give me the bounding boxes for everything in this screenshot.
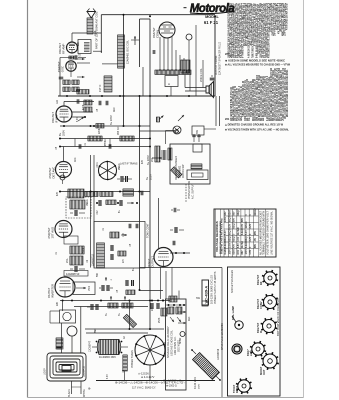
bottom bus xyxy=(96,380,215,382)
svg-text:22K: 22K xyxy=(78,41,80,46)
caps beside socket xyxy=(120,176,122,182)
wire xyxy=(140,18,151,20)
tube V3 6SA7GT CONV xyxy=(159,22,175,38)
V8 pin wires down xyxy=(160,267,162,299)
wire xyxy=(158,198,160,249)
svg-text:TERMINALS TO CHASSIS GROUND WI: TERMINALS TO CHASSIS GROUND WITH xyxy=(263,211,266,255)
block left xyxy=(68,189,84,198)
svg-text:250V: 250V xyxy=(62,130,66,136)
svg-text:88V: 88V xyxy=(242,217,244,222)
svg-text:POWER SUPPLY 45 WATTS: POWER SUPPLY 45 WATTS xyxy=(214,271,217,304)
svg-text:△ DENOTES CHASSIS GROUND ALL: △ DENOTES CHASSIS GROUND ALL RES 1/2 W xyxy=(224,123,284,127)
svg-text:6.3AC: 6.3AC xyxy=(241,228,244,235)
svg-text:TUBE PIN 1 PIN 2 PIN 3 PIN: TUBE PIN 1 PIN 2 PIN 3 PIN 4 PIN5 xyxy=(221,217,224,254)
svg-text:47K: 47K xyxy=(57,191,59,196)
tube V4 6SG7GT IF xyxy=(56,106,72,122)
svg-text:B+ 105V: B+ 105V xyxy=(147,155,150,165)
svg-text:-8V: -8V xyxy=(255,237,257,241)
svg-text:150V: 150V xyxy=(199,383,201,389)
svg-text:105V: 105V xyxy=(230,242,232,248)
resistor row with arrows xyxy=(108,303,118,308)
svg-text:1ST IF: 1ST IF xyxy=(99,84,102,92)
svg-text:22K: 22K xyxy=(57,301,59,306)
svg-text:12A69451 OSC COIL: 12A69451 OSC COIL xyxy=(127,39,130,64)
svg-text:105V: 105V xyxy=(230,249,232,255)
wire xyxy=(195,25,197,96)
arrow B+ xyxy=(152,157,162,159)
svg-text:1ST AUD: 1ST AUD xyxy=(50,227,54,239)
wire xyxy=(142,67,144,96)
svg-text:BLACK: BLACK xyxy=(68,389,71,397)
wire: top feed xyxy=(101,14,215,16)
tube V9 xyxy=(55,277,75,297)
svg-text:5.0V: 5.0V xyxy=(225,230,227,235)
svg-text:RF AMP: RF AMP xyxy=(61,43,65,54)
svg-text:455 KC: 455 KC xyxy=(117,126,120,135)
svg-text:12C65747: 12C65747 xyxy=(89,340,92,352)
svg-text:⊙-12C06: ⊙-12C06 xyxy=(138,372,149,376)
svg-text:.002: .002 xyxy=(97,210,99,215)
svg-text:6.3AC: 6.3AC xyxy=(224,248,227,255)
svg-text:40-40 MFD: 40-40 MFD xyxy=(194,377,197,389)
svg-text:LAST IF TRANS: LAST IF TRANS xyxy=(120,163,138,166)
svg-text:LINE VOLTAGE 117 V.A.C. NO SIG: LINE VOLTAGE 117 V.A.C. NO SIGNAL xyxy=(271,210,274,255)
svg-text:12A698713: 12A698713 xyxy=(66,272,80,276)
svg-text:1500: 1500 xyxy=(89,285,91,291)
svg-text:AUD: AUD xyxy=(249,350,253,356)
small cluster xyxy=(173,208,175,213)
svg-text:261: 261 xyxy=(225,117,230,121)
svg-text:FLD: FLD xyxy=(189,316,191,321)
dial lamp xyxy=(235,321,243,329)
wire xyxy=(139,96,141,290)
svg-text:6SQ7: 6SQ7 xyxy=(234,235,236,242)
padder row xyxy=(155,70,191,75)
pilot lamp xyxy=(173,126,181,134)
arrow xyxy=(178,115,184,121)
resistor cluster xyxy=(63,80,70,85)
svg-text:⊕: ⊕ xyxy=(88,387,91,391)
svg-text:B+: B+ xyxy=(58,132,62,136)
wire xyxy=(131,39,140,41)
line pair with components xyxy=(60,138,150,140)
svg-text:0.5V: 0.5V xyxy=(250,249,252,254)
svg-text:DET AVC: DET AVC xyxy=(51,167,55,179)
svg-text:6SQ7: 6SQ7 xyxy=(238,209,240,216)
svg-text:MOTOR SW: MOTOR SW xyxy=(182,164,185,178)
svg-text:VOLTMETER 1000 OHMS PER VOLT: VOLTMETER 1000 OHMS PER VOLT xyxy=(267,210,270,255)
svg-text:IF AMP: IF AMP xyxy=(54,114,58,123)
svg-text:OUT: OUT xyxy=(262,369,266,375)
svg-text:2MEG: 2MEG xyxy=(119,163,121,170)
svg-text:25Z6: 25Z6 xyxy=(159,317,161,323)
svg-text:AVC: AVC xyxy=(74,157,77,162)
osc wires xyxy=(77,58,85,60)
svg-text:VOL: VOL xyxy=(66,258,69,263)
diagonal electrolytic xyxy=(193,353,220,380)
wire to terminal xyxy=(140,130,176,132)
svg-text:47K: 47K xyxy=(142,159,144,164)
svg-text:OUTPUT: OUTPUT xyxy=(150,256,154,268)
caps cluster xyxy=(125,280,127,286)
svg-text:6.3AC: 6.3AC xyxy=(245,241,248,248)
component box with circle xyxy=(60,310,76,323)
svg-text:2.2V: 2.2V xyxy=(250,223,252,228)
svg-text:B+ 105V: B+ 105V xyxy=(110,115,113,125)
svg-text:⊕-1002-Ω: ⊕-1002-Ω xyxy=(166,385,177,388)
svg-text:6SQ7: 6SQ7 xyxy=(230,235,232,242)
wire xyxy=(140,267,223,269)
page left edge xyxy=(27,0,29,398)
svg-text:VC-439-A: VC-439-A xyxy=(203,286,208,304)
tube V2 6SA7GT OSC xyxy=(66,61,76,71)
avc network xyxy=(66,197,91,218)
wire xyxy=(149,365,151,381)
circle component xyxy=(67,326,77,336)
rectifier socket xyxy=(135,335,165,365)
svg-text:95V: 95V xyxy=(234,211,236,216)
svg-text:6SQ7: 6SQ7 xyxy=(230,215,232,222)
coil circle xyxy=(186,34,192,40)
svg-text:0.5V: 0.5V xyxy=(242,223,244,228)
output transformer xyxy=(181,60,190,73)
af choke coil xyxy=(97,243,105,268)
wire xyxy=(60,125,150,127)
wires xyxy=(193,134,195,142)
svg-text:8MF: 8MF xyxy=(95,328,97,333)
svg-text:SPKR PLUG 12A700490: SPKR PLUG 12A700490 xyxy=(221,323,224,350)
parts list: condensers/resistors (rotated text) xyxy=(225,3,290,67)
svg-text:INVERTER: INVERTER xyxy=(50,284,54,298)
svg-text:220K: 220K xyxy=(99,128,101,134)
svg-text:6.3V: 6.3V xyxy=(77,117,79,122)
svg-text:105V: 105V xyxy=(225,216,227,222)
svg-text:117 V.A.C. 50/60 CY.: 117 V.A.C. 50/60 CY. xyxy=(132,385,156,389)
svg-text:⊕ VOLTAGES TAKEN WITH 117V AC: ⊕ VOLTAGES TAKEN WITH 117V AC LINE — NO … xyxy=(225,128,289,132)
wire xyxy=(214,16,216,96)
small sq xyxy=(202,301,208,306)
svg-text:40-40MFD 150V: 40-40MFD 150V xyxy=(99,357,116,359)
tube socket 6SA7GT xyxy=(256,294,278,311)
component cluster xyxy=(150,303,152,309)
svg-text:261: 261 xyxy=(225,52,230,56)
caps right xyxy=(174,227,176,233)
tube socket 6SQ7 xyxy=(246,341,266,357)
tube V1 6SG7GT RF xyxy=(67,42,78,53)
svg-text:500K: 500K xyxy=(83,247,85,253)
filter electrolytic can xyxy=(99,340,119,355)
svg-text:61 F 21: 61 F 21 xyxy=(204,20,219,25)
wire xyxy=(85,328,164,330)
voltage table xyxy=(214,209,276,257)
svg-text:12B69452: 12B69452 xyxy=(83,365,86,377)
svg-text:DIAL LAMP: DIAL LAMP xyxy=(231,306,235,320)
svg-text:OSC: OSC xyxy=(60,66,64,72)
speaker field box xyxy=(166,299,187,390)
value labels xyxy=(56,30,191,379)
svg-text:95V: 95V xyxy=(234,217,236,222)
coupling box xyxy=(64,236,78,244)
svg-text:56K: 56K xyxy=(97,272,99,277)
svg-text:SEE NOTE: SEE NOTE xyxy=(178,340,181,352)
tube layout box xyxy=(228,267,281,396)
loop antenna xyxy=(47,353,86,381)
VC-439-A label xyxy=(202,280,209,305)
svg-text:10K: 10K xyxy=(123,232,125,237)
V3 interior xyxy=(163,26,166,28)
loop leads xyxy=(71,381,73,394)
wire xyxy=(90,155,92,268)
svg-text:88V: 88V xyxy=(255,243,257,248)
resistor xyxy=(110,232,119,238)
tube V5 6SQ7GT DET xyxy=(56,162,72,178)
tuning arrow xyxy=(134,36,136,45)
parts list: miscellaneous (rotated text) xyxy=(224,52,289,132)
svg-text:88V: 88V xyxy=(242,250,244,255)
svg-text:6K6GT: 6K6GT xyxy=(255,207,257,215)
V4 wires xyxy=(63,102,65,107)
tube socket 6SG7GT IF xyxy=(256,318,277,335)
svg-text:117AC: 117AC xyxy=(245,221,248,228)
svg-text:6SQ7: 6SQ7 xyxy=(246,235,248,242)
junctions xyxy=(149,15,151,17)
phono box xyxy=(170,144,210,184)
row components xyxy=(98,200,100,206)
svg-text:117AC: 117AC xyxy=(241,241,244,248)
power plug xyxy=(232,344,242,354)
svg-text:.0001: .0001 xyxy=(97,162,99,168)
tube V7 6SQ7GT 1ST AUD xyxy=(55,221,72,238)
svg-text:VOICE COIL: VOICE COIL xyxy=(200,68,203,82)
wire xyxy=(123,15,125,126)
if can xyxy=(165,76,178,87)
svg-text:6SA7: 6SA7 xyxy=(233,248,236,254)
volume control assembly xyxy=(155,146,160,162)
tube socket 6SG7GT RF xyxy=(256,270,278,286)
wire xyxy=(71,33,73,42)
svg-text:RECT: RECT xyxy=(235,386,239,393)
svg-text:6.3AC: 6.3AC xyxy=(224,241,227,248)
page bottom edge xyxy=(28,397,304,399)
svg-text:6SQ7: 6SQ7 xyxy=(234,222,236,229)
svg-text:170V: 170V xyxy=(246,249,248,255)
svg-text:A-5678 .5MEG 22K W.W. SOCKET: A-5678 .5MEG 22K W.W. SOCKET xyxy=(286,3,289,30)
svg-text:5.0V: 5.0V xyxy=(246,230,248,235)
speaker xyxy=(206,82,214,98)
svg-text:A.C. SUPPLY: A.C. SUPPLY xyxy=(192,184,195,199)
svg-text:1MEG: 1MEG xyxy=(87,199,89,206)
svg-text:⊕ 4-0-117V: ⊕ 4-0-117V xyxy=(141,375,155,379)
svg-text:TONE CONT: TONE CONT xyxy=(147,223,150,238)
inverter out box xyxy=(73,282,95,295)
svg-text:5Y3: 5Y3 xyxy=(165,341,167,346)
capacitor xyxy=(74,55,76,60)
wire xyxy=(59,58,61,97)
svg-text:MICA MICA .05 400V LAMP .01 60: MICA MICA .05 400V LAMP .01 600V 220K B-… xyxy=(286,69,289,117)
cluster right of V9 xyxy=(101,285,103,291)
wire bus xyxy=(58,95,215,97)
svg-text:CONV: CONV xyxy=(259,301,263,309)
svg-text:RF: RF xyxy=(259,281,263,285)
svg-text:8.5V: 8.5V xyxy=(238,243,240,248)
svg-text:6.3V: 6.3V xyxy=(107,374,109,379)
svg-text:6SQ7: 6SQ7 xyxy=(230,228,232,235)
svg-text:8.5V: 8.5V xyxy=(230,223,232,228)
2nd IF transformer xyxy=(60,191,150,193)
svg-text:12A: 12A xyxy=(56,99,59,104)
svg-text:⊕ ALL VOLTAGES MEASURED TO CHA: ⊕ ALL VOLTAGES MEASURED TO CHASSIS GND —… xyxy=(225,63,290,67)
switch box xyxy=(192,126,204,135)
wire xyxy=(100,15,102,53)
svg-text:12A698718: 12A698718 xyxy=(92,254,95,266)
svg-text:12C65748: 12C65748 xyxy=(217,348,220,360)
svg-text:CONV: CONV xyxy=(155,30,159,38)
components on bus xyxy=(84,100,92,105)
antenna coil L1 xyxy=(87,18,93,34)
osc coil column xyxy=(118,35,125,68)
svg-text:0.5V: 0.5V xyxy=(238,236,240,241)
svg-text:MODEL: MODEL xyxy=(205,15,219,19)
volume control xyxy=(70,246,84,254)
label box xyxy=(64,271,88,277)
svg-text:POWER TRANS: POWER TRANS xyxy=(131,350,134,368)
svg-text:6SG7: 6SG7 xyxy=(225,235,227,242)
svg-text:6SA7: 6SA7 xyxy=(229,209,232,215)
tube pins wires xyxy=(159,37,161,70)
diagonal resistor in phono area xyxy=(171,167,182,178)
tone box xyxy=(94,222,145,269)
svg-text:2.2V: 2.2V xyxy=(250,236,252,241)
if coil column xyxy=(104,76,112,92)
diagonal resistor xyxy=(123,314,136,327)
rf coil box xyxy=(78,40,91,54)
page right edge xyxy=(303,0,305,398)
svg-text:100K: 100K xyxy=(95,30,97,36)
svg-text:45V: 45V xyxy=(233,243,236,248)
svg-text:⊕ USED IN SOME MODELS SEE NOT: ⊕ USED IN SOME MODELS SEE NOTE 455KC xyxy=(225,59,285,63)
svg-text:8.5V: 8.5V xyxy=(238,249,240,254)
tube V8 6K6GT OUTPUT xyxy=(154,248,173,267)
svg-text:117AC: 117AC xyxy=(237,228,240,235)
small block xyxy=(56,338,63,349)
svg-text:SOCKET VOLTAGES: SOCKET VOLTAGES xyxy=(231,270,234,293)
small circle below V5 xyxy=(60,175,65,180)
cap block xyxy=(123,355,128,371)
svg-text:WHITE: WHITE xyxy=(83,389,86,397)
antenna xyxy=(87,12,96,19)
socket V6 xyxy=(99,162,117,180)
wires power top xyxy=(60,300,170,302)
svg-text:455KC: 455KC xyxy=(105,139,107,146)
svg-text:LOOP: LOOP xyxy=(44,368,47,375)
svg-text:95V: 95V xyxy=(225,211,227,216)
svg-text:470K: 470K xyxy=(83,104,85,110)
cap pair xyxy=(90,304,92,310)
svg-text:⊕—14C06—Ω→: ⊕—14C06—Ω→ xyxy=(163,379,184,383)
svg-text:12A700377 SPEAKER FIELD: 12A700377 SPEAKER FIELD xyxy=(219,42,222,75)
svg-text:VOL: VOL xyxy=(151,157,154,162)
svg-text:PART OF 12A700346 ANT COIL: PART OF 12A700346 ANT COIL xyxy=(95,11,99,49)
svg-text:95V: 95V xyxy=(255,230,257,235)
svg-text:105V: 105V xyxy=(150,174,153,180)
tube socket 6K6GT xyxy=(259,352,279,375)
tube socket 5Y3GT xyxy=(232,378,252,394)
wire xyxy=(149,19,151,330)
svg-text:AVC: AVC xyxy=(113,107,116,112)
